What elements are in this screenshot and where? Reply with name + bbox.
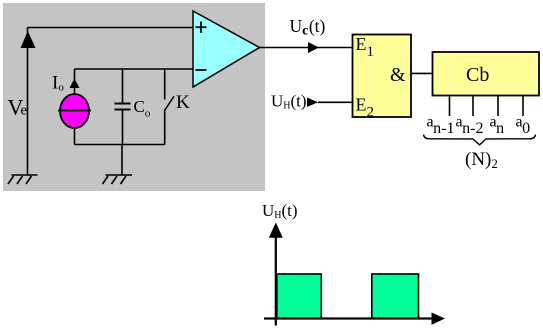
gray panel background bbox=[3, 3, 265, 191]
ground symbol G1 bbox=[8, 175, 38, 184]
svg-text:UH(t): UH(t) bbox=[262, 201, 298, 221]
capacitor Co branch lower wire bbox=[122, 110, 124, 145]
op-amp minus input mark bbox=[196, 69, 207, 71]
wire minus input / inner top rail bbox=[75, 68, 194, 70]
ground symbol G2 bbox=[103, 175, 133, 184]
pin stub 1 bbox=[449, 96, 451, 117]
timing diagram vertical axis bbox=[275, 235, 277, 326]
node v-axis arrowhead bbox=[269, 223, 283, 238]
timing diagram horizontal axis bbox=[264, 317, 433, 319]
current source Io branch: upper wire with arrow bbox=[74, 69, 76, 94]
capacitor Co branch upper wire bbox=[122, 69, 124, 104]
counter Cb box bbox=[433, 52, 540, 96]
svg-text:UH(t): UH(t) bbox=[271, 92, 307, 112]
switch K blade bbox=[165, 96, 174, 110]
svg-text:an: an bbox=[490, 114, 505, 138]
svg-text:Uc(t): Uc(t) bbox=[290, 16, 326, 39]
node Ve arrow (up) bbox=[21, 31, 36, 48]
switch K branch upper wire bbox=[164, 69, 166, 100]
svg-text:&: & bbox=[390, 64, 406, 86]
wire AND output to Cb bbox=[411, 72, 433, 74]
wire bottom rail bbox=[75, 144, 165, 146]
current source Io bbox=[60, 94, 89, 128]
svg-text:(N)2: (N)2 bbox=[465, 149, 498, 171]
wire bottom rail to ground bbox=[121, 145, 123, 176]
svg-text:an-2: an-2 bbox=[456, 114, 484, 138]
svg-text:K: K bbox=[176, 92, 190, 113]
svg-text:Cb: Cb bbox=[466, 64, 489, 86]
wire UH to E2 bbox=[318, 101, 353, 103]
pin stub 3 bbox=[497, 96, 499, 117]
svg-text:a0: a0 bbox=[516, 114, 531, 138]
wire op-amp output to E1 bbox=[259, 47, 353, 49]
AND gate U2 box bbox=[353, 35, 412, 118]
node current direction arrow (up) bbox=[70, 79, 80, 89]
svg-text:an-1: an-1 bbox=[427, 114, 455, 138]
pulse 1 bbox=[277, 274, 322, 319]
node signal arrow UH bbox=[307, 98, 318, 108]
switch K branch lower wire bbox=[164, 109, 166, 145]
pin stub 4 bbox=[522, 96, 524, 117]
wire top (Ve to + input) bbox=[28, 27, 194, 29]
op-amp plus input mark bbox=[196, 22, 207, 34]
pulse 2 bbox=[372, 274, 419, 319]
node h-axis arrowhead bbox=[432, 313, 446, 325]
node signal arrow on output wire bbox=[308, 42, 319, 53]
capacitor Co plates bbox=[115, 103, 131, 105]
wire below current source bbox=[74, 128, 76, 145]
brace under outputs bbox=[424, 135, 536, 145]
wire Ve vertical line bbox=[27, 28, 29, 176]
op-amp comparator K1 bbox=[193, 11, 260, 87]
pin stub 2 bbox=[472, 96, 474, 117]
